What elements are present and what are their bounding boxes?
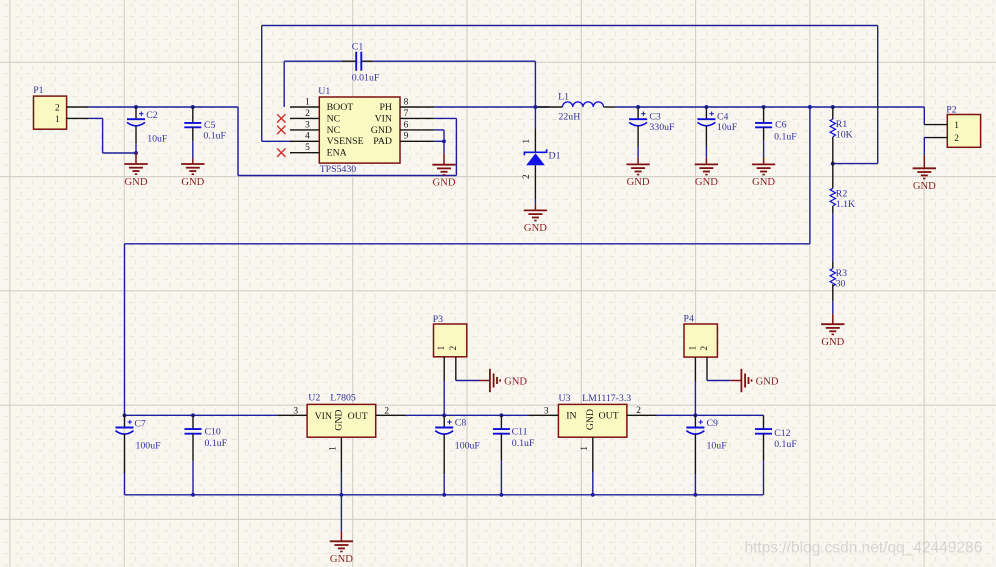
svg-text:PAD: PAD (373, 136, 392, 147)
svg-text:GND: GND (334, 409, 345, 430)
node C11 bottom (499, 493, 503, 497)
svg-text:GND: GND (756, 376, 779, 387)
svg-text:100uF: 100uF (455, 440, 481, 451)
node C7 (123, 413, 127, 417)
svg-text:C8: C8 (455, 417, 467, 428)
svg-text:0.01uF: 0.01uF (352, 72, 380, 83)
wire input up to VIN (455, 118, 457, 175)
svg-text:30: 30 (836, 278, 846, 289)
wire P2 pin2 down (923, 138, 925, 156)
node pin9 gnd (442, 139, 446, 143)
svg-text:C1: C1 (352, 42, 364, 53)
wire pin6 down to pin9 (443, 130, 445, 141)
svg-text:VIN: VIN (375, 113, 392, 124)
svg-text:NC: NC (327, 125, 341, 136)
svg-text:10uF: 10uF (147, 133, 168, 144)
svg-text:1: 1 (580, 446, 590, 451)
node C10 top (191, 413, 195, 417)
regulator U3 LM1117-3.3 (529, 393, 657, 495)
svg-text:GND: GND (504, 376, 527, 387)
wire P1.1 down (102, 118, 104, 153)
capacitor C2 (127, 107, 168, 153)
wire input down (237, 107, 239, 176)
svg-text:P1: P1 (33, 85, 43, 96)
svg-text:10K: 10K (836, 130, 853, 141)
node C2 top (134, 105, 138, 109)
ground under R3 (821, 314, 845, 348)
node C10 bottom (191, 493, 195, 497)
wire input to VIN pin (434, 117, 456, 119)
svg-text:1: 1 (437, 345, 447, 350)
svg-text:L1: L1 (558, 92, 569, 103)
svg-text:10uF: 10uF (717, 122, 738, 133)
svg-text:C2: C2 (146, 110, 158, 121)
svg-text:4: 4 (305, 132, 310, 142)
connector P2 (924, 105, 980, 148)
watermark (745, 540, 983, 557)
svg-text:PH: PH (379, 102, 392, 113)
wire BOOT to C1 (284, 60, 342, 62)
capacitor C5 (184, 107, 226, 159)
no-connect X pin5 (277, 149, 285, 157)
svg-text:2: 2 (636, 406, 641, 416)
capacitor C4 (697, 107, 737, 158)
ground under C5 (181, 159, 205, 188)
ground under C6 (752, 158, 776, 188)
svg-text:GND: GND (524, 223, 547, 234)
node C2 bottom (134, 151, 138, 155)
svg-text:2: 2 (700, 345, 710, 350)
node R1 bottom (831, 162, 835, 166)
svg-text:U2: U2 (308, 393, 320, 404)
wire C1 to PH node (373, 60, 536, 62)
svg-text:GND: GND (695, 177, 718, 188)
wire rail2 left segment (125, 414, 278, 416)
svg-text:VSENSE: VSENSE (327, 136, 364, 147)
inductor L1 (538, 92, 617, 123)
wire rail to P2 pin1 (923, 107, 925, 125)
svg-text:1: 1 (305, 97, 310, 107)
wire P1.1 right (89, 117, 103, 119)
capacitor C9 (686, 415, 727, 495)
svg-text:C7: C7 (134, 418, 146, 429)
wire P1.1 to C2 (103, 152, 136, 154)
capacitor C7 (116, 415, 162, 495)
svg-text:100uF: 100uF (136, 441, 162, 452)
node U2 gnd (339, 493, 343, 497)
capacitor C10 (185, 415, 228, 495)
wire middle across (125, 243, 810, 245)
wire rail2 right segment (657, 414, 764, 416)
svg-text:GND: GND (913, 181, 936, 192)
svg-text:R1: R1 (836, 119, 848, 130)
svg-text:GND: GND (585, 409, 596, 430)
svg-text:7: 7 (404, 109, 409, 119)
regulator U2 L7805 (277, 393, 406, 495)
svg-text:2: 2 (384, 406, 389, 416)
wire feedback right vertical (877, 26, 879, 164)
svg-text:U3: U3 (559, 393, 571, 404)
svg-text:1.1K: 1.1K (836, 199, 855, 210)
svg-text:OUT: OUT (348, 411, 368, 422)
svg-text:C5: C5 (204, 120, 216, 131)
svg-text:3: 3 (293, 406, 298, 416)
ground under U1 pad (432, 153, 456, 188)
svg-text:P2: P2 (946, 105, 956, 116)
svg-text:C10: C10 (205, 427, 221, 438)
ground under C3 (626, 158, 650, 188)
connector P3 (433, 314, 467, 415)
svg-text:IN: IN (566, 411, 576, 422)
op-amp U1 TPS5430 (290, 86, 434, 175)
node U3 gnd (591, 493, 595, 497)
no-connect X pin2 (277, 114, 285, 122)
svg-text:C11: C11 (512, 427, 528, 438)
svg-text:2: 2 (449, 345, 459, 350)
wire rail2 mid segment (406, 414, 529, 416)
node C11 top (499, 413, 503, 417)
svg-text:GND: GND (181, 177, 204, 188)
svg-text:2: 2 (305, 109, 310, 119)
wire feedback left vertical (261, 26, 263, 142)
svg-text:0.1uF: 0.1uF (774, 132, 797, 143)
node R1 top (831, 105, 835, 109)
svg-text:R3: R3 (836, 268, 848, 279)
capacitor C11 (493, 415, 535, 495)
wire feedback to R1 bottom (833, 163, 878, 165)
svg-text:330uF: 330uF (649, 122, 675, 133)
svg-text:NC: NC (327, 113, 341, 124)
svg-text:C12: C12 (774, 428, 790, 439)
node C9 top (693, 413, 697, 417)
svg-text:ENA: ENA (327, 148, 347, 159)
wire input P1.2 to C5 (89, 106, 238, 108)
node C9 bottom (693, 493, 697, 497)
node C3 (636, 105, 640, 109)
svg-text:C3: C3 (649, 111, 661, 122)
capacitor C6 (755, 107, 797, 158)
svg-text:R2: R2 (836, 188, 848, 199)
svg-text:1: 1 (522, 139, 532, 144)
svg-text:22uH: 22uH (559, 112, 581, 123)
wire R2-R3 link (832, 206, 834, 268)
ground under D1 (524, 204, 548, 234)
svg-text:L7805: L7805 (330, 393, 356, 404)
svg-text:1: 1 (688, 345, 698, 350)
wire output down from rail (809, 107, 811, 244)
resistor R3 (830, 268, 847, 314)
svg-text:C9: C9 (707, 418, 719, 429)
svg-text:D1: D1 (549, 151, 561, 162)
svg-text:8: 8 (404, 97, 409, 107)
svg-text:0.1uF: 0.1uF (512, 438, 535, 449)
node output tap (808, 105, 812, 109)
wire to VSENSE pin (262, 140, 290, 142)
svg-text:VIN: VIN (315, 411, 332, 422)
svg-text:TPS5430: TPS5430 (320, 164, 357, 175)
capacitor C1 (342, 42, 380, 84)
wire input across (238, 175, 456, 177)
svg-text:LM1117-3.3: LM1117-3.3 (582, 393, 631, 404)
capacitor C12 (755, 415, 797, 495)
resistor R2 (830, 164, 855, 210)
node C4 (704, 105, 708, 109)
svg-text:0.1uF: 0.1uF (203, 131, 226, 142)
capacitor C3 (629, 107, 675, 158)
node C6 (762, 105, 766, 109)
svg-text:GND: GND (821, 337, 844, 348)
diode D1 (522, 129, 560, 205)
svg-text:9: 9 (404, 132, 409, 142)
svg-text:1: 1 (954, 121, 959, 131)
svg-text:2: 2 (55, 103, 60, 113)
svg-text:GND: GND (330, 554, 353, 565)
svg-text:1: 1 (328, 446, 338, 451)
node C5 top (191, 105, 195, 109)
svg-text:P4: P4 (684, 313, 694, 324)
node C8 bottom (442, 493, 446, 497)
wire feedback top (262, 25, 878, 27)
svg-text:2: 2 (954, 134, 959, 144)
svg-text:C6: C6 (775, 120, 787, 131)
wire PAD pin9 stub (434, 140, 444, 142)
ground under C2 (124, 153, 148, 188)
svg-text:5: 5 (305, 143, 310, 153)
svg-text:3: 3 (305, 120, 310, 130)
svg-text:0.1uF: 0.1uF (205, 438, 228, 449)
capacitor C8 (435, 415, 480, 495)
ground at P3 (479, 369, 527, 392)
svg-text:0.1uF: 0.1uF (774, 439, 797, 450)
node D1 (533, 105, 537, 109)
ground under P2 (913, 155, 937, 192)
svg-text:2: 2 (522, 174, 532, 179)
svg-text:GND: GND (627, 177, 650, 188)
svg-text:3: 3 (544, 406, 549, 416)
no-connect X pin3 (277, 126, 285, 134)
svg-text:C4: C4 (717, 111, 729, 122)
svg-text:https://blog.csdn.net/qq_42449: https://blog.csdn.net/qq_42449286 (745, 540, 983, 557)
wire main rail right (616, 106, 924, 108)
wire C1 node down to rail (534, 61, 536, 128)
node C8 top (442, 413, 446, 417)
wire pin9 node down (443, 141, 445, 153)
ground under C4 (695, 158, 719, 188)
svg-text:GND: GND (433, 178, 456, 189)
svg-text:10uF: 10uF (707, 441, 728, 452)
connector P1 (33, 85, 89, 129)
wire P3 pin2 to ground (456, 380, 479, 382)
svg-text:U1: U1 (318, 86, 330, 97)
svg-text:BOOT: BOOT (327, 102, 354, 113)
wire BOOT vertical (283, 61, 285, 107)
svg-text:GND: GND (371, 125, 392, 136)
ground under U2 (330, 495, 354, 565)
svg-text:OUT: OUT (599, 411, 619, 422)
wire left vertical down (124, 244, 126, 415)
svg-text:6: 6 (404, 120, 409, 130)
svg-text:GND: GND (125, 177, 148, 188)
wire P4 pin2 to ground (707, 380, 730, 382)
svg-text:P3: P3 (433, 314, 443, 325)
wire GND pin6 stub (434, 129, 444, 131)
svg-text:GND: GND (752, 177, 775, 188)
resistor R1 (830, 107, 853, 164)
wire bottom rail (125, 494, 764, 496)
svg-text:1: 1 (55, 115, 60, 125)
ground at P4 (730, 369, 779, 392)
wire main rail left (434, 106, 549, 108)
connector P4 (684, 313, 718, 415)
